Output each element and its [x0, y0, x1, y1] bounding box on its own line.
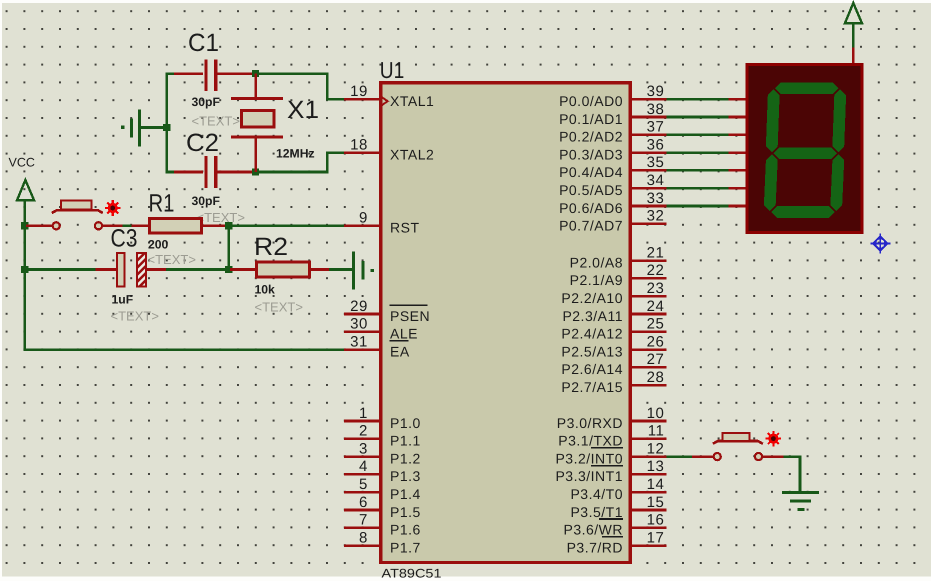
svg-text:10k: 10k — [255, 283, 276, 297]
capacitor C3 plate (hatched +) — [137, 253, 146, 287]
svg-text:<TEXT>: <TEXT> — [197, 210, 245, 225]
svg-text:P1.7: P1.7 — [390, 539, 421, 555]
pin 28 P2.7/A15 (right) — [561, 369, 666, 395]
push-button (INT0) terminal left — [714, 453, 721, 460]
pin 35 P0.4/AD4 (right) — [559, 154, 666, 180]
display DS1 body — [747, 65, 862, 233]
push-button (reset) terminal left — [53, 222, 60, 229]
pin 24 P2.3/A11 (right) — [562, 298, 666, 324]
push-button (reset) terminal right — [95, 222, 102, 229]
svg-text:P3.4/T0: P3.4/T0 — [570, 486, 623, 502]
pin 21 P2.0/A8 (right) — [570, 244, 667, 270]
node junction R1 / RST / divider — [225, 222, 232, 229]
capacitor C3 plate (plain) — [117, 253, 124, 287]
ground symbol (INT0 button) — [782, 491, 819, 511]
svg-text:11: 11 — [648, 423, 665, 440]
push-button (reset) actuator bar — [52, 210, 103, 213]
wire bottom rail to corner green — [254, 171, 329, 174]
display segment d — [771, 206, 835, 218]
wire P0.3 to display green — [667, 151, 729, 154]
svg-text:P1.1: P1.1 — [390, 433, 421, 449]
svg-text:ALE: ALE — [390, 326, 418, 342]
svg-text:31: 31 — [350, 333, 368, 350]
capacitor C2 — [204, 156, 217, 188]
pin 7 P1.6 (left) — [344, 512, 421, 538]
svg-text:C2: C2 — [186, 129, 219, 157]
svg-text:P2.3/A11: P2.3/A11 — [562, 308, 623, 324]
push-button (INT0) cap — [723, 433, 750, 441]
svg-text:5: 5 — [359, 476, 368, 493]
svg-text:14: 14 — [647, 476, 665, 493]
svg-text:VCC: VCC — [9, 156, 35, 170]
pin 36 P0.3/AD3 (right) — [559, 136, 666, 162]
pin 17 P3.7/RD (right) — [567, 529, 667, 555]
pin 9 RST (left) — [344, 210, 420, 236]
svg-text:200: 200 — [148, 238, 169, 252]
svg-text:P3.1/TXD: P3.1/TXD — [558, 433, 623, 449]
power symbol VCC (left) — [17, 180, 34, 200]
wire bottom rail to EA — [25, 348, 346, 351]
wire VCC to display green — [852, 23, 855, 48]
svg-text:P1.4: P1.4 — [390, 486, 421, 502]
svg-text:P0.3/AD3: P0.3/AD3 — [559, 146, 623, 162]
svg-text:P0.7/AD7: P0.7/AD7 — [559, 218, 623, 234]
wire button left lead red — [692, 455, 713, 458]
svg-text:21: 21 — [647, 244, 665, 261]
svg-text:RST: RST — [390, 220, 420, 236]
pin 11 P3.1/TXD (right) — [558, 423, 666, 449]
pin 16 P3.6/WR (right) — [563, 512, 666, 538]
pin 30 ALE (left) — [344, 316, 418, 342]
wire P0.1 to display green — [667, 116, 729, 119]
svg-text:9: 9 — [359, 210, 368, 227]
svg-text:38: 38 — [647, 101, 665, 118]
svg-text:2: 2 — [359, 423, 368, 440]
resistor R1 — [150, 218, 202, 233]
wire display pin stub 2 — [729, 134, 747, 137]
svg-text:P0.6/AD6: P0.6/AD6 — [559, 200, 623, 216]
svg-text:12: 12 — [647, 440, 665, 457]
svg-text:3: 3 — [359, 440, 368, 457]
wire to pin19 horizontal — [327, 98, 346, 101]
svg-text:<TEXT>: <TEXT> — [148, 252, 196, 267]
node junction rail / button row — [21, 222, 28, 229]
svg-text:P3.2/INT0: P3.2/INT0 — [555, 450, 623, 466]
svg-text:P2.2/A10: P2.2/A10 — [561, 290, 623, 306]
wire VCC rail vertical — [23, 200, 26, 351]
svg-text:P3.7/RD: P3.7/RD — [567, 539, 623, 555]
resistor R2 — [257, 262, 310, 277]
pin 12 P3.2/INT0 (right) — [555, 440, 666, 466]
svg-text:P0.1/AD1: P0.1/AD1 — [559, 111, 623, 127]
svg-text:19: 19 — [350, 83, 368, 100]
wire P0.5 to display green — [667, 187, 729, 190]
wire R1 to RST green — [227, 225, 346, 228]
display segment g — [773, 147, 837, 159]
svg-text:P0.0/AD0: P0.0/AD0 — [559, 93, 623, 109]
svg-text:AT89C51: AT89C51 — [382, 567, 442, 581]
pin 4 P1.3 (left) — [344, 458, 421, 484]
wire C2 bottom rail green segment — [167, 171, 176, 174]
svg-text:XTAL1: XTAL1 — [390, 93, 434, 109]
svg-text:P2.5/A13: P2.5/A13 — [561, 343, 623, 359]
pin 13 P3.3/INT1 (right) — [555, 458, 666, 484]
pin 33 P0.6/AD6 (right) — [559, 190, 666, 216]
wire P0.6 to display green — [667, 205, 729, 208]
pin 18 XTAL2 (left) — [344, 136, 434, 162]
svg-text:35: 35 — [647, 154, 665, 171]
svg-text:17: 17 — [647, 529, 665, 546]
pin 23 P2.2/A10 (right) — [561, 280, 666, 306]
pin 34 P0.5/AD5 (right) — [559, 172, 666, 198]
svg-text:P3.3/INT1: P3.3/INT1 — [555, 468, 623, 484]
marker schematic origin crosshair — [870, 233, 890, 253]
svg-text:P2.4/A12: P2.4/A12 — [561, 326, 623, 342]
svg-text:P1.2: P1.2 — [390, 450, 421, 466]
wire crystal left rail vertical — [166, 72, 169, 173]
wire P0.2 to display green — [667, 134, 729, 137]
pin 19 XTAL1 (left) — [344, 83, 434, 109]
svg-text:P3.6/WR: P3.6/WR — [563, 522, 623, 538]
wire R1 right lead red — [203, 225, 227, 228]
wire R2 to ground green — [329, 268, 353, 271]
pin 14 P3.4/T0 (right) — [570, 476, 666, 502]
pin 25 P2.4/A12 (right) — [561, 316, 666, 342]
wire P0.0 to display green — [667, 98, 729, 101]
svg-text:8: 8 — [359, 529, 368, 546]
svg-text:37: 37 — [647, 119, 665, 136]
svg-text:25: 25 — [647, 316, 665, 333]
wire C2 right lead red — [216, 171, 254, 174]
wire C2 left lead red — [174, 171, 203, 174]
pin 19 XTAL1 clock arrow — [381, 97, 388, 106]
svg-text:7: 7 — [359, 512, 368, 529]
svg-text:30pF: 30pF — [192, 194, 220, 208]
svg-text:30: 30 — [350, 316, 368, 333]
svg-text:P2.6/A14: P2.6/A14 — [561, 361, 623, 377]
svg-text:XTAL2: XTAL2 — [390, 146, 434, 162]
pin 2 P1.1 (left) — [344, 423, 421, 449]
push-button (reset) cap — [61, 201, 91, 210]
svg-text:36: 36 — [647, 136, 665, 153]
wire C1 top rail green segment — [167, 72, 176, 75]
pin 39 P0.0/AD0 (right) — [559, 83, 666, 109]
wire C3 left lead red — [95, 268, 116, 271]
svg-text:R2: R2 — [254, 233, 288, 261]
svg-text:33: 33 — [647, 190, 665, 207]
push-button (reset) marker star — [105, 200, 121, 216]
svg-text:P2.7/A15: P2.7/A15 — [561, 379, 623, 395]
display segment f — [766, 89, 780, 152]
svg-text:<TEXT>: <TEXT> — [111, 309, 159, 324]
push-button (INT0) marker star — [766, 431, 782, 447]
crystal X1 top plate bar — [231, 97, 283, 100]
display segment b — [832, 89, 846, 152]
pin 27 P2.6/A14 (right) — [561, 351, 666, 377]
svg-text:P2.1/A9: P2.1/A9 — [570, 272, 623, 288]
svg-text:23: 23 — [647, 280, 665, 297]
wire display pin stub 4 — [729, 169, 747, 172]
pin 1 P1.0 (left) — [344, 405, 421, 431]
wire rail to C3 green — [25, 268, 97, 271]
display segment a — [775, 82, 839, 94]
svg-text:EA: EA — [390, 343, 410, 359]
wire to pin18 horizontal — [327, 151, 346, 154]
svg-text:P3.0/RXD: P3.0/RXD — [557, 415, 623, 431]
wire corner up to XTAL2 row — [326, 151, 329, 173]
svg-text:C1: C1 — [188, 29, 219, 57]
node junction ground / rail — [163, 124, 170, 131]
wire display pin stub 0 — [729, 98, 747, 101]
svg-text:32: 32 — [647, 208, 665, 225]
pin 32 P0.7/AD7 (right) — [559, 208, 666, 234]
svg-text:P0.2/AD2: P0.2/AD2 — [559, 129, 623, 145]
svg-text:4: 4 — [359, 458, 368, 475]
svg-text:15: 15 — [647, 494, 665, 511]
wire C3 to divider green — [166, 268, 229, 271]
pin 10 P3.0/RXD (right) — [557, 405, 667, 431]
wire pin12 to button green — [667, 455, 694, 458]
wire divider vertical green — [227, 226, 230, 271]
power symbol VCC (display) — [845, 3, 862, 23]
wire P0.4 to display green — [667, 169, 729, 172]
wire button to R1 red — [103, 225, 123, 228]
node junction divider / C3 row — [225, 266, 232, 273]
wire C3 right lead red — [147, 268, 166, 271]
svg-text:39: 39 — [647, 83, 665, 100]
wire button to ground corner green — [784, 457, 801, 493]
wire display pin stub 3 — [729, 151, 747, 154]
wire top rail to corner green — [254, 72, 329, 75]
wire R2 left lead red — [230, 268, 256, 271]
wire rail to button stub red — [26, 225, 52, 228]
svg-text:P0.5/AD5: P0.5/AD5 — [559, 182, 623, 198]
svg-text:28: 28 — [647, 369, 665, 386]
svg-text:<TEXT>: <TEXT> — [192, 114, 240, 129]
pin 15 P3.5/T1 (right) — [570, 494, 666, 520]
wire display pin stub 1 — [729, 116, 747, 119]
op: IC U1 AT89C51 body — [381, 83, 630, 563]
svg-text:6: 6 — [359, 494, 368, 511]
wire display pin stub 5 — [729, 187, 747, 190]
svg-text:18: 18 — [350, 136, 368, 153]
push-button (INT0) terminal right — [755, 453, 762, 460]
svg-text:U1: U1 — [380, 57, 405, 83]
wire corner down to XTAL1 row — [326, 72, 329, 100]
svg-text:P2.0/A8: P2.0/A8 — [570, 254, 623, 270]
crystal X1 body — [242, 110, 274, 127]
svg-text:12MHz: 12MHz — [276, 147, 315, 161]
svg-text:10: 10 — [647, 405, 665, 422]
svg-text:R1: R1 — [149, 190, 175, 218]
svg-text:30pF: 30pF — [192, 95, 220, 109]
display segment c — [830, 154, 844, 211]
pin 3 P1.2 (left) — [344, 440, 421, 466]
wire C1 left lead red — [174, 72, 203, 75]
ground symbol (crystal) — [121, 109, 141, 146]
svg-text:24: 24 — [647, 298, 665, 315]
wire C1 right lead red — [216, 72, 254, 75]
ground symbol (R2, rotated right) — [352, 251, 374, 289]
svg-text:P1.3: P1.3 — [390, 468, 421, 484]
wire button-R1 green bit — [123, 225, 132, 228]
pin 5 P1.4 (left) — [344, 476, 421, 502]
svg-text:PSEN: PSEN — [390, 308, 430, 324]
svg-text:P3.5/T1: P3.5/T1 — [570, 504, 623, 520]
svg-text:P1.0: P1.0 — [390, 415, 421, 431]
node junction rail / C3 row — [21, 266, 28, 273]
crystal X1 bottom plate bar — [231, 135, 283, 138]
svg-text:1: 1 — [359, 405, 368, 422]
wire display pin stub 6 — [729, 205, 747, 208]
pin 26 P2.5/A13 (right) — [561, 333, 666, 359]
svg-text:29: 29 — [350, 298, 368, 315]
svg-text:26: 26 — [647, 333, 665, 350]
node junction top rail / crystal — [252, 70, 259, 77]
pin 6 P1.5 (left) — [344, 494, 421, 520]
svg-text:<TEXT>: <TEXT> — [255, 300, 303, 315]
svg-text:1uF: 1uF — [112, 293, 134, 307]
svg-text:27: 27 — [647, 351, 665, 368]
svg-text:34: 34 — [647, 172, 665, 189]
display segment e — [764, 154, 778, 211]
svg-text:P0.4/AD4: P0.4/AD4 — [559, 164, 623, 180]
svg-text:16: 16 — [647, 512, 665, 529]
pin 31 EA (left) — [344, 333, 410, 359]
push-button (INT0) actuator bar — [713, 441, 763, 444]
pin 8 P1.7 (left) — [344, 529, 421, 555]
pin 37 P0.2/AD2 (right) — [559, 119, 666, 145]
svg-text:P1.5: P1.5 — [390, 504, 421, 520]
node junction bottom rail / crystal — [252, 168, 259, 175]
wire ground to rail — [141, 126, 168, 129]
svg-text:P1.6: P1.6 — [390, 522, 421, 538]
wire button right lead red — [763, 455, 784, 458]
wire R2 right lead red — [311, 268, 329, 271]
svg-text:C3: C3 — [111, 225, 138, 253]
wire display top stub red — [852, 48, 855, 65]
pin 22 P2.1/A9 (right) — [570, 262, 667, 288]
pin 38 P0.1/AD1 (right) — [559, 101, 666, 127]
crystal X1 top lead — [254, 74, 257, 99]
svg-text:X1: X1 — [287, 96, 319, 124]
svg-text:13: 13 — [647, 458, 665, 475]
pin 29 PSEN (left) — [344, 298, 430, 324]
capacitor C1 — [204, 59, 217, 91]
crystal X1 bottom lead — [254, 137, 257, 172]
svg-text:22: 22 — [647, 262, 665, 279]
wire R1 left lead red — [132, 225, 149, 228]
